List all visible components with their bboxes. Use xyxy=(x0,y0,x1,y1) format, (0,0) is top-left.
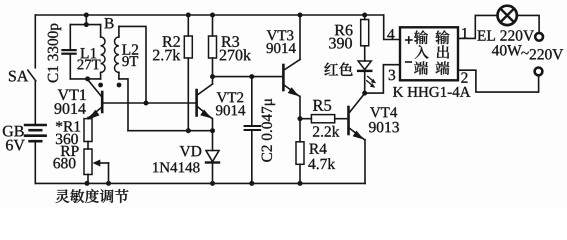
node rail RP bottom xyxy=(85,181,90,186)
terminal circle bottom xyxy=(535,68,543,76)
label VT1 designator xyxy=(58,89,86,100)
label L2 turns 9T xyxy=(122,56,138,66)
wire left vertical mid xyxy=(34,81,36,124)
node rail VD xyxy=(210,181,215,186)
node VT4 collector LED pin3 xyxy=(362,91,367,96)
label relay pin 2 xyxy=(461,72,467,82)
wire tank top xyxy=(70,24,100,26)
wire relay pin4 xyxy=(384,15,400,40)
label relay output col xyxy=(436,61,450,74)
label relay input col xyxy=(414,61,428,74)
label lamp power 40W xyxy=(492,45,522,56)
transistor VT2 xyxy=(195,90,198,116)
label L1 turns 27T xyxy=(77,59,100,69)
resistor R2 xyxy=(187,15,189,36)
label VT2 type 9014 xyxy=(216,105,245,115)
RP wiper wire xyxy=(97,162,109,164)
label AC voltage 220V xyxy=(530,49,564,60)
resistor R5 xyxy=(300,118,311,120)
node tank bottom VT1 collector xyxy=(85,76,90,81)
node rail-VT3C xyxy=(298,13,303,18)
node C2 top xyxy=(249,74,254,79)
node rail RP wiper xyxy=(106,181,111,186)
node rail-R6 xyxy=(362,13,367,18)
label AC tilde xyxy=(521,52,529,55)
label VT3 designator xyxy=(267,30,294,40)
wire tank bottom xyxy=(70,78,100,80)
wire rail to tank stub xyxy=(85,15,87,25)
node base-L2 xyxy=(144,101,149,106)
label RP designator xyxy=(61,146,79,156)
label VT4 type 9013 xyxy=(369,122,399,132)
resistor R1 xyxy=(84,119,92,142)
inductor L1 xyxy=(100,25,102,37)
label LED red label xyxy=(324,62,352,75)
label relay pin 4 xyxy=(387,29,394,39)
wire relay pin3 xyxy=(365,65,400,93)
inductor L2 xyxy=(118,26,120,37)
label VD type 1N4148 xyxy=(153,162,199,172)
capacitor C2 xyxy=(251,77,253,125)
label R2 designator xyxy=(162,36,179,47)
label relay pin 3 xyxy=(389,70,395,80)
label relay output col xyxy=(437,45,449,58)
node emitter line R2 xyxy=(186,128,191,133)
node VT2 collector R3 xyxy=(210,74,215,79)
label C2 value 0.047u (rotated) xyxy=(262,99,275,162)
wire bottom rail xyxy=(35,182,365,184)
label transformer label B xyxy=(104,18,113,28)
node rail C2 xyxy=(249,181,254,186)
label R1 value 360 xyxy=(56,134,78,144)
wire top rail xyxy=(35,14,383,16)
label relay type K HHG1-4A xyxy=(393,87,470,97)
label VT3 type 9014 xyxy=(266,43,295,53)
wire relay pin2 to bottom terminal xyxy=(459,70,539,92)
label L1 designator xyxy=(80,48,96,58)
label R2 value 2.7k xyxy=(153,49,180,60)
label R3 designator xyxy=(221,36,239,47)
label L2 designator xyxy=(122,44,138,54)
label VT1 type 9014 xyxy=(55,103,86,114)
transistor VT4 xyxy=(347,107,350,134)
wire L2 top to base node xyxy=(119,26,146,103)
wire VT2 collector to VT3 base xyxy=(213,76,283,78)
label relay input col xyxy=(414,30,428,44)
polarity dot L2 xyxy=(117,83,122,88)
label R1 designator *R1 xyxy=(56,121,80,131)
wire left vertical upper xyxy=(34,15,36,68)
polarity dot L1 xyxy=(98,83,103,88)
arrow VT1 emitter xyxy=(88,110,100,120)
relay plus sign xyxy=(406,39,412,41)
LED red xyxy=(358,61,371,70)
label lamp label EL 220V xyxy=(477,30,534,41)
label R6 value 390 xyxy=(329,38,352,49)
terminal circle top xyxy=(535,33,543,41)
diode VD xyxy=(212,131,214,151)
label relay input col xyxy=(415,45,429,59)
arrow RP wiper xyxy=(93,160,101,167)
resistor R6 xyxy=(364,15,366,20)
resistor R3 xyxy=(212,15,214,36)
node rail R4 xyxy=(298,181,303,186)
LED light arrows xyxy=(366,76,376,88)
wire VT1 emitter to R1 xyxy=(87,118,89,119)
wire tank left upper xyxy=(69,25,71,49)
lamp EL xyxy=(498,6,517,25)
label R3 value 270k xyxy=(220,49,251,60)
label battery label GB xyxy=(3,126,24,137)
wire left vertical lower xyxy=(34,142,36,183)
node rail-R3 xyxy=(210,13,215,18)
node tank top xyxy=(84,22,89,27)
label switch label SA xyxy=(9,71,28,82)
label VT2 designator xyxy=(217,92,244,102)
wire emitter node line xyxy=(128,130,213,132)
switch SA blade xyxy=(28,70,36,81)
relay box K xyxy=(400,27,458,80)
label R5 designator xyxy=(313,100,331,111)
battery GB plates xyxy=(25,125,45,141)
label relay pin 1 xyxy=(462,28,467,38)
transistor VT1 xyxy=(101,92,104,112)
arrow VT3 emitter xyxy=(288,87,299,96)
label R4 designator xyxy=(309,144,326,154)
label R4 value 4.7k xyxy=(308,158,335,169)
wire lamp to top terminal xyxy=(517,15,539,31)
node emitter line VD xyxy=(210,128,215,133)
label battery voltage 6V xyxy=(6,140,25,151)
capacitor C1 xyxy=(62,50,75,54)
label RP value 680 xyxy=(53,158,75,168)
relay minus sign xyxy=(406,61,412,63)
potentiometer RP xyxy=(84,149,92,175)
wire tank left lower xyxy=(69,55,71,79)
wire base line VT1 to VT2 xyxy=(104,102,197,104)
arrow VT2 emitter xyxy=(200,110,211,119)
node VT3 emitter R5 xyxy=(298,116,303,121)
label R5 value 2.2k xyxy=(313,126,339,137)
resistor R4 xyxy=(296,142,304,165)
wire L2 bottom feedback xyxy=(119,79,128,131)
node rail-tank xyxy=(84,13,89,18)
wire relay pin1 to lamp xyxy=(459,15,498,38)
label VD designator xyxy=(180,146,202,156)
label R6 designator xyxy=(335,25,353,36)
transistor VT3 xyxy=(282,65,285,90)
label sensitivity adjust text xyxy=(56,189,129,203)
label relay output col xyxy=(435,30,449,44)
label VT4 designator xyxy=(370,107,397,117)
label C1 value 3300p (rotated) xyxy=(48,24,61,83)
arrow VT4 emitter xyxy=(353,131,364,140)
node rail-R2 xyxy=(186,13,191,18)
